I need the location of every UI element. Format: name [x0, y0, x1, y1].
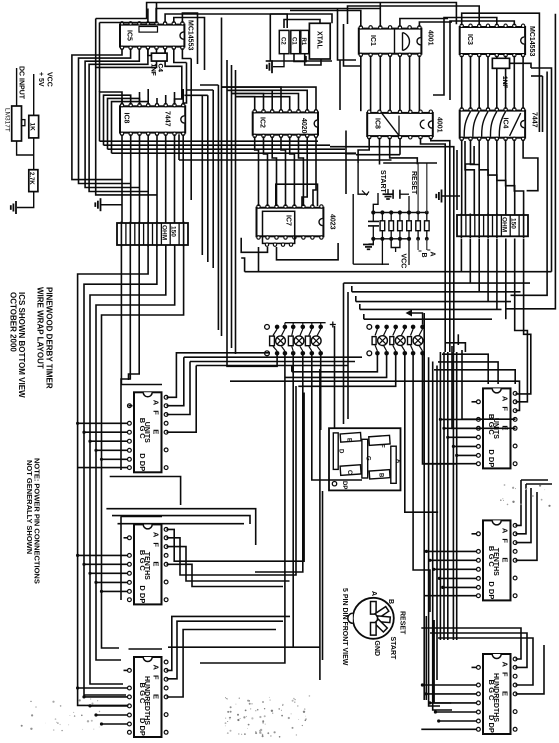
wire	[96, 581, 128, 583]
svg-text:4001: 4001	[427, 30, 434, 46]
wire	[292, 356, 294, 648]
wire	[102, 458, 128, 460]
wire	[217, 85, 219, 330]
wire	[84, 245, 157, 695]
label A	[370, 591, 377, 596]
wire	[156, 222, 158, 247]
svg-text:XTAL: XTAL	[316, 31, 323, 49]
wire	[241, 238, 267, 253]
wire	[430, 559, 477, 561]
wire	[478, 239, 480, 292]
wire	[168, 646, 320, 648]
wire	[96, 48, 157, 195]
wire	[258, 247, 260, 272]
svg-text:A: A	[152, 665, 161, 671]
wire	[102, 590, 128, 592]
wire	[457, 454, 477, 456]
svg-text:HUNDREDTHS: HUNDREDTHS	[143, 676, 150, 725]
wire	[90, 705, 128, 707]
wire	[222, 87, 281, 111]
node junction dots	[371, 210, 429, 241]
wire	[302, 136, 307, 206]
wire	[322, 491, 324, 660]
wire	[227, 90, 308, 110]
wire	[330, 147, 454, 352]
wire	[526, 483, 552, 485]
wire	[33, 74, 35, 115]
wire	[165, 134, 167, 223]
wire	[356, 154, 400, 156]
wire	[506, 139, 515, 215]
wire	[370, 55, 372, 111]
svg-text:E: E	[346, 438, 352, 442]
wire	[462, 350, 516, 419]
capacitor 1NF redraw	[492, 58, 509, 88]
svg-text:DP: DP	[341, 481, 347, 489]
wire	[351, 286, 353, 292]
svg-text:IC2: IC2	[259, 117, 266, 128]
wire	[434, 370, 515, 384]
label VCC	[400, 254, 407, 269]
wire	[423, 356, 458, 464]
wire	[446, 343, 465, 352]
wire	[129, 648, 163, 650]
wire	[182, 48, 191, 58]
display UNITS right	[477, 388, 517, 468]
wire	[360, 55, 362, 111]
svg-text:G: G	[365, 456, 371, 461]
svg-text:IC4: IC4	[502, 118, 509, 129]
wire	[418, 55, 420, 111]
wire	[270, 14, 332, 61]
wire	[277, 243, 339, 260]
wire	[90, 572, 128, 574]
wire	[236, 97, 290, 111]
wire	[207, 95, 209, 262]
wire	[130, 95, 132, 105]
wire	[290, 11, 361, 27]
wire	[124, 669, 128, 671]
wire	[96, 714, 128, 716]
wire	[505, 239, 507, 320]
wire	[184, 94, 207, 96]
wire	[399, 55, 401, 111]
wire	[497, 139, 506, 215]
wire	[165, 48, 182, 104]
wire	[461, 139, 463, 215]
wire	[183, 222, 185, 247]
wire	[227, 342, 277, 366]
svg-text:A: A	[429, 252, 436, 257]
wire	[156, 134, 158, 223]
label VCC +5V	[37, 72, 53, 87]
wire	[255, 356, 303, 573]
svg-text:WIRE WRAP LAYOUT: WIRE WRAP LAYOUT	[36, 287, 45, 369]
wire	[345, 131, 347, 195]
wire	[352, 194, 354, 264]
wire	[118, 523, 245, 525]
wire	[413, 356, 430, 613]
label B	[419, 251, 428, 258]
wire	[364, 318, 492, 320]
wire	[344, 24, 361, 66]
svg-text:F: F	[501, 406, 510, 411]
label 4001	[427, 30, 434, 46]
display UNITS left	[127, 392, 168, 472]
wire	[338, 9, 357, 61]
wire	[353, 263, 389, 265]
wire	[379, 138, 381, 165]
wire	[102, 245, 184, 648]
svg-text:E: E	[501, 557, 510, 562]
wire	[112, 102, 149, 154]
svg-text:D: D	[338, 449, 344, 454]
svg-text:F: F	[152, 542, 161, 547]
wire + bus	[285, 322, 336, 328]
wire	[434, 568, 477, 570]
wire	[465, 146, 474, 215]
wire	[78, 245, 149, 705]
wire	[469, 239, 471, 284]
wire	[222, 87, 316, 111]
wire	[515, 239, 528, 402]
diagram segment map	[329, 428, 401, 490]
wire	[292, 356, 378, 372]
ground	[95, 198, 121, 211]
svg-text:RESET: RESET	[399, 611, 406, 635]
wire	[450, 21, 514, 100]
ground	[267, 60, 272, 73]
title WIRE WRAP LAYOUT	[36, 287, 45, 369]
wire	[452, 352, 454, 640]
wire	[424, 463, 477, 465]
wire	[419, 22, 452, 27]
wire	[456, 352, 458, 640]
wire	[389, 55, 391, 111]
wire	[121, 134, 123, 223]
wire	[85, 48, 139, 187]
wire	[417, 239, 419, 250]
transistors Q4-Q6 and resistors right	[372, 329, 423, 351]
svg-text:D: D	[138, 453, 147, 459]
wire	[90, 440, 128, 442]
svg-text:C1: C1	[291, 37, 297, 45]
wire	[443, 586, 477, 588]
svg-text:+ 5V: + 5V	[37, 72, 44, 87]
svg-text:4020: 4020	[300, 118, 307, 134]
wire	[460, 239, 462, 272]
capacitor C1	[291, 30, 300, 53]
wire	[139, 92, 141, 105]
wire	[390, 138, 418, 165]
label DC INPUT	[18, 66, 25, 100]
wire	[183, 63, 186, 105]
wire	[460, 214, 462, 239]
wire	[488, 139, 497, 215]
IC IC3 MC14553	[460, 24, 525, 57]
svg-text:MC14553: MC14553	[187, 20, 194, 50]
svg-text:F: F	[501, 672, 510, 677]
note NOT GENERALLY SHOWN	[25, 460, 34, 554]
display TENTHS left	[127, 524, 168, 604]
wire	[523, 139, 538, 190]
wire	[379, 55, 381, 111]
wire	[421, 728, 477, 730]
wire	[409, 55, 411, 111]
wire	[516, 488, 532, 543]
wire	[408, 239, 410, 265]
wire	[156, 98, 158, 105]
wire	[422, 684, 477, 686]
svg-text:MC14553: MC14553	[528, 26, 535, 56]
wire	[139, 134, 141, 223]
IC IC8 7447	[120, 103, 185, 135]
wire	[430, 702, 477, 704]
capacitor C4 1NF	[150, 53, 168, 76]
svg-text:B: B	[387, 599, 394, 604]
wire	[200, 84, 218, 86]
label 4001	[436, 117, 443, 133]
wire	[344, 282, 531, 284]
svg-text:C2: C2	[280, 37, 286, 45]
svg-text:RESET: RESET	[410, 171, 417, 195]
wire	[212, 90, 214, 268]
wire	[379, 3, 381, 27]
wire	[165, 14, 287, 28]
wire	[457, 334, 459, 345]
node junction dots displays	[76, 418, 458, 726]
svg-text:C4: C4	[157, 64, 164, 73]
wire	[435, 711, 477, 713]
wire	[179, 159, 356, 161]
wire	[96, 449, 128, 451]
wire	[16, 68, 18, 106]
IC IC2 4020	[253, 110, 318, 138]
svg-text:150: 150	[170, 226, 177, 237]
wire	[266, 60, 271, 62]
wire	[426, 239, 428, 250]
wire	[425, 616, 427, 700]
wire	[395, 248, 397, 253]
label MC14553	[187, 20, 194, 50]
wire	[408, 196, 410, 213]
wire	[516, 480, 522, 525]
wire	[356, 301, 511, 303]
wire	[472, 666, 477, 668]
wire	[178, 134, 180, 160]
wire	[226, 60, 228, 342]
wire	[231, 94, 264, 111]
svg-text:IC8: IC8	[123, 113, 130, 124]
wire	[462, 13, 540, 132]
wire	[17, 192, 34, 208]
capacitor 1NF	[492, 58, 509, 88]
label RESET	[399, 611, 406, 635]
wire	[112, 152, 357, 154]
wire	[531, 75, 543, 77]
wire	[138, 222, 140, 247]
wire	[363, 314, 365, 319]
wire	[165, 48, 167, 57]
wire	[221, 18, 223, 337]
wire	[438, 638, 533, 685]
wire	[434, 620, 451, 703]
wire	[96, 3, 457, 25]
wire	[100, 140, 319, 142]
label MC14553	[528, 26, 535, 56]
wire	[313, 136, 316, 206]
wire	[514, 139, 523, 215]
wire	[442, 354, 488, 384]
wire	[373, 193, 378, 213]
wire	[516, 484, 527, 534]
svg-text:7447: 7447	[531, 112, 538, 128]
wire	[516, 645, 545, 694]
svg-text:IC8: IC8	[374, 118, 381, 129]
wire	[522, 56, 524, 109]
wire	[478, 56, 480, 109]
wire	[444, 427, 477, 429]
svg-text:IC7: IC7	[285, 215, 292, 226]
wire	[167, 353, 271, 398]
wire	[460, 381, 520, 410]
wire	[472, 533, 477, 535]
svg-text:GND: GND	[373, 641, 380, 657]
wire	[104, 95, 131, 145]
wire	[506, 14, 555, 309]
wire	[421, 138, 446, 352]
wire	[513, 56, 515, 109]
wire	[439, 352, 441, 640]
wire	[184, 356, 362, 358]
wire	[373, 238, 409, 240]
wire	[129, 245, 140, 380]
svg-text:OCTOBER 2000: OCTOBER 2000	[9, 292, 18, 352]
svg-text:F: F	[501, 538, 510, 543]
resistor network RN1 150 OHM	[117, 223, 188, 245]
wire	[167, 616, 291, 670]
wire	[471, 139, 480, 215]
svg-text:E: E	[152, 429, 161, 434]
svg-text:A: A	[370, 591, 377, 596]
svg-text:A: A	[152, 400, 161, 406]
wire	[531, 68, 552, 272]
svg-text:D: D	[138, 585, 147, 591]
wire	[270, 14, 332, 23]
svg-text:DP: DP	[487, 457, 496, 467]
wire	[84, 431, 128, 433]
svg-text:A: A	[501, 396, 510, 402]
wire	[147, 89, 149, 105]
wire	[359, 304, 361, 309]
wire	[320, 356, 322, 431]
wire	[148, 48, 152, 55]
svg-text:D: D	[487, 581, 496, 587]
wire	[231, 94, 299, 111]
wire	[294, 54, 306, 62]
wire	[156, 3, 158, 23]
wire	[447, 352, 449, 640]
wire	[424, 595, 477, 597]
wire	[347, 292, 349, 419]
wire	[433, 18, 497, 96]
wire	[339, 60, 341, 110]
wire	[167, 630, 277, 698]
IC IC7 4023	[257, 205, 324, 247]
connector pads left display	[265, 325, 323, 356]
note OCTOBER 2000	[9, 292, 18, 352]
label 7447	[531, 112, 538, 128]
wire	[291, 366, 293, 372]
wire	[360, 308, 502, 310]
note ICS SHOWN BOTTOM VIEW	[17, 292, 26, 398]
wire	[121, 98, 123, 105]
wire	[147, 134, 149, 223]
wire	[430, 633, 527, 667]
wire	[516, 239, 531, 394]
wire	[245, 271, 552, 273]
wire	[174, 48, 187, 62]
wire	[167, 547, 290, 581]
svg-text:LM317T: LM317T	[4, 108, 11, 132]
wire	[84, 696, 128, 698]
label START	[389, 637, 396, 661]
wire	[372, 239, 374, 244]
wire	[417, 163, 419, 213]
svg-text:UNITS: UNITS	[143, 422, 150, 443]
wire	[470, 56, 472, 109]
wire	[110, 477, 181, 506]
svg-text:DP: DP	[138, 726, 147, 736]
capacitor C2	[279, 30, 289, 53]
wire	[273, 54, 284, 67]
svg-text:OHM: OHM	[501, 217, 508, 232]
svg-text:F: F	[152, 675, 161, 680]
wire	[496, 214, 498, 239]
wire	[33, 138, 35, 170]
connector J1 5-pin DIN	[348, 598, 394, 639]
wire	[124, 537, 128, 539]
resistor R1	[300, 30, 309, 53]
wire	[542, 76, 544, 132]
label START	[379, 170, 386, 194]
wire	[439, 577, 477, 579]
wire	[405, 356, 438, 513]
wire	[121, 516, 162, 518]
svg-text:5 PIN DIN FRONT VIEW: 5 PIN DIN FRONT VIEW	[341, 588, 348, 666]
wire	[99, 23, 101, 93]
label B	[387, 599, 394, 604]
svg-text:B: B	[378, 473, 384, 478]
wire arrow vcc	[406, 310, 423, 325]
wire	[453, 445, 477, 447]
wire	[241, 258, 244, 272]
svg-text:R1: R1	[300, 38, 306, 46]
wire	[383, 162, 437, 164]
wire	[298, 356, 395, 387]
wire	[108, 148, 346, 150]
wire	[201, 95, 203, 255]
capacitor C4 redraw	[150, 53, 168, 76]
wire	[334, 326, 336, 428]
wire	[90, 245, 166, 684]
wire	[440, 418, 477, 420]
svg-text:7447: 7447	[164, 111, 171, 127]
wire	[426, 163, 428, 213]
wire	[190, 59, 192, 201]
wire	[448, 436, 477, 438]
wire	[78, 687, 128, 689]
